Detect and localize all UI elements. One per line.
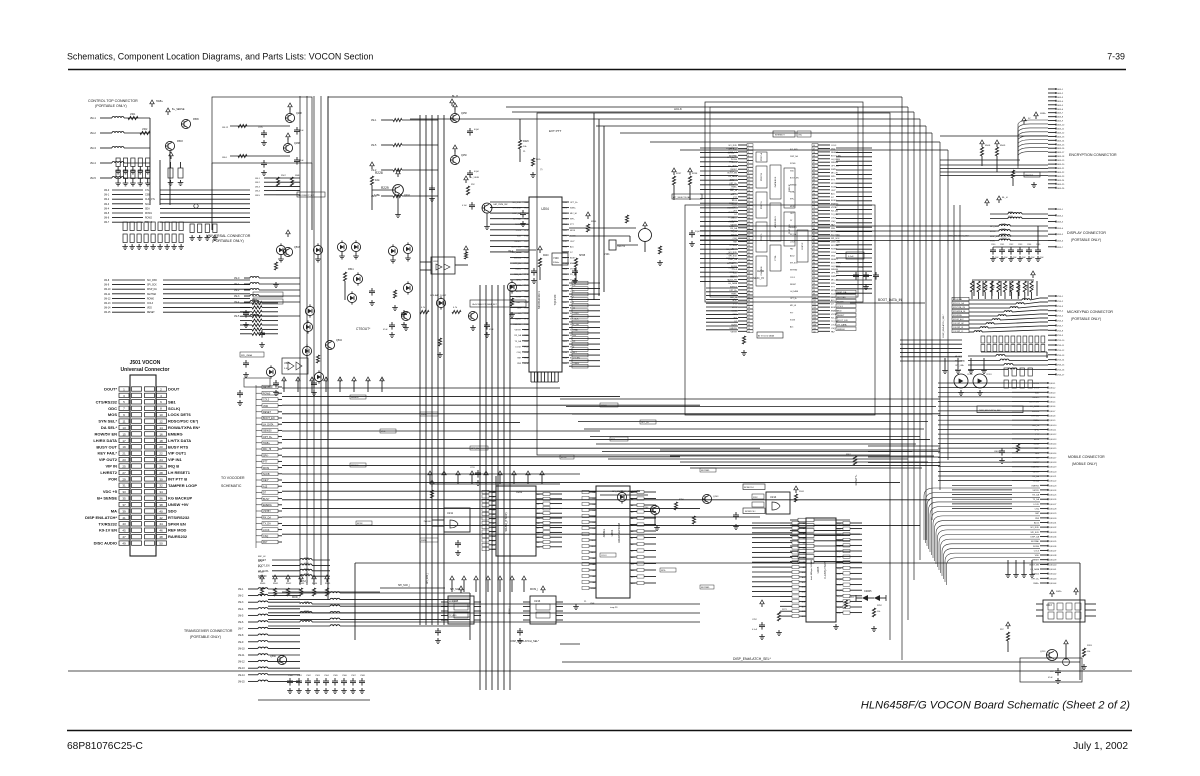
mic keypad lower rows bbox=[955, 355, 1048, 372]
svg-text:DQ14: DQ14 bbox=[837, 601, 842, 603]
svg-text:EMERG: EMERG bbox=[570, 263, 578, 265]
svg-text:J601-25: J601-25 bbox=[1057, 184, 1065, 186]
svg-text:D3: D3 bbox=[593, 510, 595, 512]
svg-text:JM-5: JM-5 bbox=[104, 213, 110, 215]
svg-text:VSTBY: VSTBY bbox=[730, 331, 737, 333]
svg-text:C563: C563 bbox=[315, 675, 321, 677]
svg-text:SPKR EN: SPKR EN bbox=[168, 521, 186, 526]
svg-text:KPD/TOTA_CM: KPD/TOTA_CM bbox=[953, 306, 965, 309]
svg-text:DISP_DA: DISP_DA bbox=[512, 212, 521, 215]
wire bus mid horizontals bbox=[282, 388, 940, 534]
label to vocoder schematic bbox=[221, 476, 245, 488]
svg-text:Intel 4Mbyte SLRAM: Intel 4Mbyte SLRAM bbox=[810, 560, 813, 580]
svg-text:19: 19 bbox=[122, 445, 126, 449]
svg-text:tsop-29: tsop-29 bbox=[610, 606, 618, 609]
net labels under J501 bbox=[258, 556, 266, 579]
svg-text:EMERG: EMERG bbox=[263, 504, 272, 507]
svg-text:A1: A1 bbox=[631, 498, 633, 501]
svg-text:CE1*: CE1* bbox=[263, 479, 269, 482]
svg-text:MOSI: MOSI bbox=[790, 206, 795, 208]
svg-text:J,801-4: J,801-4 bbox=[1049, 397, 1055, 399]
svg-text:J,801-40: J,801-40 bbox=[1049, 564, 1056, 566]
svg-text:JM-9: JM-9 bbox=[104, 285, 110, 287]
svg-text:LH RESET1: LH RESET1 bbox=[168, 470, 191, 475]
svg-text:102: 102 bbox=[813, 304, 816, 306]
svg-text:SCKB: SCKB bbox=[258, 577, 264, 579]
svg-text:PORT B: PORT B bbox=[761, 172, 763, 181]
svg-text:63: 63 bbox=[813, 169, 815, 171]
svg-text:JM-2: JM-2 bbox=[90, 131, 96, 135]
svg-text:AD12: AD12 bbox=[790, 255, 795, 258]
svg-text:C252: C252 bbox=[752, 619, 758, 621]
svg-text:SB9600: SB9600 bbox=[837, 329, 846, 331]
svg-text:DQ10: DQ10 bbox=[837, 579, 842, 581]
svg-text:VSTBY: VSTBY bbox=[1032, 490, 1039, 492]
svg-text:BL_H: BL_H bbox=[1002, 197, 1008, 199]
svg-text:ODC: ODC bbox=[108, 406, 117, 411]
svg-text:0.1uF: 0.1uF bbox=[752, 629, 758, 631]
svg-text:C241: C241 bbox=[1000, 244, 1004, 246]
svg-text:MIC_HI: MIC_HI bbox=[730, 297, 737, 299]
svg-text:TX_DA: TX_DA bbox=[263, 523, 271, 526]
svg-text:28: 28 bbox=[748, 238, 750, 240]
svg-text:MOSI: MOSI bbox=[357, 523, 363, 525]
svg-text:J701-2: J701-2 bbox=[1057, 301, 1064, 303]
svg-text:K9-1V EN: K9-1V EN bbox=[99, 528, 117, 533]
svg-text:A2: A2 bbox=[593, 569, 595, 572]
svg-text:A12: A12 bbox=[802, 581, 805, 584]
svg-text:Y200: Y200 bbox=[553, 257, 559, 260]
footer rule bbox=[67, 730, 1132, 732]
svg-text:BUSY RTS: BUSY RTS bbox=[168, 444, 188, 449]
svg-text:J701-12: J701-12 bbox=[1057, 350, 1065, 352]
svg-text:SDA: SDA bbox=[145, 207, 150, 210]
svg-text:DOUT: DOUT bbox=[168, 387, 180, 392]
svg-text:DISP_DA: DISP_DA bbox=[837, 291, 847, 294]
svg-text:DQ1: DQ1 bbox=[837, 529, 841, 531]
svg-text:VDD: VDD bbox=[1035, 555, 1040, 557]
svg-text:CSQ: CSQ bbox=[831, 221, 836, 223]
svg-text:FLASH(LTSOP): FLASH(LTSOP) bbox=[824, 561, 827, 579]
svg-text:SP5-BAT_DL/4P: SP5-BAT_DL/4P bbox=[430, 294, 447, 297]
svg-text:MIC_HI: MIC_HI bbox=[728, 166, 735, 168]
svg-text:J601-12: J601-12 bbox=[1057, 132, 1065, 134]
svg-text:COL3: COL3 bbox=[601, 555, 607, 557]
ground row mobile bbox=[1005, 560, 1035, 577]
svg-text:D7: D7 bbox=[537, 528, 539, 530]
svg-text:JM-6: JM-6 bbox=[238, 621, 244, 624]
svg-text:J701-11: J701-11 bbox=[1057, 345, 1065, 347]
svg-text:70: 70 bbox=[813, 193, 815, 195]
svg-text:(PORTABLE ONLY): (PORTABLE ONLY) bbox=[1071, 238, 1101, 242]
svg-text:JM-12: JM-12 bbox=[222, 127, 229, 129]
svg-text:SCLK: SCLK bbox=[298, 376, 300, 382]
svg-text:12: 12 bbox=[159, 420, 163, 424]
svg-text:44: 44 bbox=[159, 522, 163, 526]
svg-text:C566: C566 bbox=[342, 675, 348, 677]
svg-text:DQ4: DQ4 bbox=[837, 545, 841, 547]
svg-text:99: 99 bbox=[813, 293, 815, 295]
svg-text:OPT_LMA: OPT_LMA bbox=[955, 364, 964, 367]
encryption horizontals bbox=[940, 159, 1020, 161]
svg-text:94: 94 bbox=[813, 276, 815, 278]
svg-text:VSTBY: VSTBY bbox=[831, 207, 838, 209]
svg-text:10k: 10k bbox=[1087, 651, 1090, 653]
stub column JM mid bbox=[255, 175, 325, 197]
svg-text:MOSI: MOSI bbox=[263, 467, 269, 470]
svg-text:1: 1 bbox=[748, 145, 749, 147]
svg-text:EMERG: EMERG bbox=[727, 208, 734, 210]
svg-text:D2: D2 bbox=[593, 504, 595, 506]
svg-text:A13: A13 bbox=[802, 586, 805, 589]
svg-text:R508: R508 bbox=[985, 145, 991, 147]
transistor Q210 with R228 R229 bbox=[370, 162, 411, 217]
svg-text:J,801-5: J,801-5 bbox=[1049, 402, 1055, 404]
svg-text:TX/RS232: TX/RS232 bbox=[99, 521, 118, 526]
svg-text:42: 42 bbox=[159, 516, 163, 520]
svg-text:JM-5: JM-5 bbox=[234, 315, 240, 318]
svg-text:Q210: Q210 bbox=[404, 194, 411, 197]
capacitor row transceiver bbox=[258, 655, 370, 700]
svg-text:PORT L: PORT L bbox=[761, 232, 763, 241]
svg-text:50: 50 bbox=[748, 314, 750, 316]
svg-text:TO VOCODER: TO VOCODER bbox=[221, 476, 245, 480]
svg-text:101: 101 bbox=[813, 300, 816, 302]
svg-text:47uF: 47uF bbox=[489, 329, 494, 331]
svg-text:DISP EN/LATCH*: DISP EN/LATCH* bbox=[85, 515, 117, 520]
svg-text:COL3: COL3 bbox=[263, 399, 270, 402]
svg-text:61: 61 bbox=[813, 162, 815, 164]
svg-text:10: 10 bbox=[748, 176, 750, 178]
svg-text:MOSI: MOSI bbox=[831, 183, 837, 185]
svg-text:CONTROL TOP CONNECTOR: CONTROL TOP CONNECTOR bbox=[88, 99, 138, 103]
svg-text:SPKB: SPKB bbox=[579, 255, 586, 257]
svg-text:Universal Connector: Universal Connector bbox=[121, 367, 170, 373]
svg-text:21: 21 bbox=[748, 214, 750, 216]
svg-text:R563: R563 bbox=[299, 583, 305, 585]
svg-text:A15: A15 bbox=[570, 245, 574, 248]
svg-text:MIC_HI: MIC_HI bbox=[790, 305, 797, 307]
svg-text:Q560: Q560 bbox=[270, 655, 277, 658]
svg-text:SRAM_(TSOP): SRAM_(TSOP) bbox=[504, 512, 508, 531]
wire bus left verticals bbox=[300, 96, 510, 690]
footer doc number bbox=[67, 741, 143, 752]
svg-text:4.7k: 4.7k bbox=[453, 307, 458, 309]
svg-text:MOD_|: MOD_| bbox=[292, 596, 300, 599]
svg-text:A4: A4 bbox=[803, 542, 805, 545]
svg-text:U202: U202 bbox=[516, 490, 523, 494]
svg-text:U209: U209 bbox=[433, 261, 439, 263]
svg-text:A1: A1 bbox=[493, 495, 495, 498]
svg-text:KPD/MODA_DE: KPD/MODA_DE bbox=[953, 310, 966, 313]
capacitor C801 bbox=[994, 444, 1020, 463]
svg-text:Schematics, Component Location: Schematics, Component Location Diagrams,… bbox=[67, 52, 373, 62]
svg-text:31: 31 bbox=[748, 249, 750, 251]
svg-text:PL: PL bbox=[523, 151, 526, 153]
svg-text:77: 77 bbox=[813, 217, 815, 219]
svg-text:54: 54 bbox=[748, 328, 750, 330]
svg-text:66: 66 bbox=[813, 180, 815, 182]
svg-text:R252: R252 bbox=[877, 605, 883, 607]
svg-text:R262: R262 bbox=[753, 497, 758, 499]
svg-text:A11: A11 bbox=[631, 563, 634, 566]
svg-text:PTT: PTT bbox=[258, 566, 263, 568]
svg-text:KEYPAD: KEYPAD bbox=[701, 469, 710, 472]
svg-text:A10: A10 bbox=[802, 571, 805, 574]
svg-text:SWB+: SWB+ bbox=[831, 276, 838, 278]
svg-text:J601-4: J601-4 bbox=[1057, 101, 1064, 103]
svg-text:A11: A11 bbox=[802, 576, 805, 579]
svg-text:A17: A17 bbox=[802, 605, 805, 608]
svg-text:KEYPAD: KEYPAD bbox=[837, 296, 846, 299]
svg-text:PA0: PA0 bbox=[524, 245, 529, 248]
svg-text:TX_DA: TX_DA bbox=[515, 340, 522, 343]
svg-text:U205: U205 bbox=[816, 566, 820, 573]
svg-text:J,801-43: J,801-43 bbox=[1049, 578, 1056, 580]
transistor Q503 Q504 bbox=[273, 230, 354, 363]
svg-text:RCM2CS#: RCM2CS# bbox=[745, 511, 756, 513]
svg-text:10k: 10k bbox=[375, 178, 380, 182]
label box below U200 bbox=[741, 332, 783, 355]
svg-text:25: 25 bbox=[748, 228, 750, 230]
svg-text:DISP_DA: DISP_DA bbox=[147, 288, 157, 291]
svg-text:JM-2: JM-2 bbox=[238, 595, 244, 598]
svg-text:JM-3: JM-3 bbox=[255, 186, 261, 188]
svg-text:DISP_EN/LATCH_SEL*: DISP_EN/LATCH_SEL* bbox=[942, 314, 945, 337]
svg-text:34: 34 bbox=[748, 259, 750, 261]
svg-text:J601-14: J601-14 bbox=[1057, 140, 1065, 142]
svg-text:J,801-42: J,801-42 bbox=[1049, 574, 1056, 576]
wire bus top staircase bbox=[328, 97, 948, 660]
svg-text:(PORTABLE ONLY): (PORTABLE ONLY) bbox=[190, 635, 221, 639]
svg-text:CTS/RS232: CTS/RS232 bbox=[96, 399, 118, 404]
svg-text:COL3: COL3 bbox=[570, 341, 576, 343]
svg-text:MOSI_|: MOSI_| bbox=[530, 588, 538, 591]
svg-text:SPK_CMBA: SPK_CMBA bbox=[241, 354, 253, 357]
svg-text:A7: A7 bbox=[803, 556, 805, 559]
svg-text:J,801-35: J,801-35 bbox=[1049, 541, 1056, 543]
svg-text:TRANSCEIVER CONNECTOR: TRANSCEIVER CONNECTOR bbox=[184, 629, 233, 633]
svg-text:SWB+: SWB+ bbox=[1040, 113, 1047, 115]
svg-text:J,801-2: J,801-2 bbox=[1049, 388, 1055, 390]
net label boxes right of U200 bbox=[836, 290, 856, 331]
wire bus right verticals bbox=[890, 205, 960, 640]
svg-text:15: 15 bbox=[122, 432, 126, 436]
svg-text:JM-4: JM-4 bbox=[104, 208, 110, 210]
svg-text:R565: R565 bbox=[325, 583, 331, 585]
svg-text:A0: A0 bbox=[593, 557, 595, 560]
svg-text:SCI_RXD: SCI_RXD bbox=[726, 249, 734, 251]
svg-text:36: 36 bbox=[748, 266, 750, 268]
svg-text:33: 33 bbox=[748, 255, 750, 257]
svg-text:A9: A9 bbox=[631, 550, 633, 553]
svg-text:47pF: 47pF bbox=[474, 171, 480, 173]
svg-text:JM-0: JM-0 bbox=[104, 190, 110, 192]
svg-text:D2: D2 bbox=[537, 542, 539, 544]
svg-text:R541: R541 bbox=[348, 268, 354, 271]
svg-text:AD12: AD12 bbox=[730, 243, 735, 246]
svg-text:J,801-30: J,801-30 bbox=[1049, 518, 1056, 520]
svg-text:SCKB: SCKB bbox=[790, 319, 796, 321]
svg-text:J601-3: J601-3 bbox=[1057, 97, 1064, 99]
svg-text:B+_SENSE: B+_SENSE bbox=[172, 108, 185, 111]
svg-text:J701-14: J701-14 bbox=[1057, 360, 1065, 362]
svg-text:MOSI: MOSI bbox=[729, 180, 734, 182]
svg-text:EMERG: EMERG bbox=[1032, 485, 1040, 487]
svg-text:JM-7: JM-7 bbox=[238, 628, 244, 631]
svg-text:J701-7: J701-7 bbox=[1057, 325, 1064, 327]
svg-text:IRQ B: IRQ B bbox=[168, 464, 179, 469]
svg-text:JM-8: JM-8 bbox=[104, 280, 110, 282]
svg-text:LH_DATA: LH_DATA bbox=[1030, 405, 1039, 408]
svg-text:29: 29 bbox=[748, 242, 750, 244]
svg-text:SPI_EN/BOOT_SEL/VPP: SPI_EN/BOOT_SEL/VPP bbox=[612, 491, 637, 493]
svg-text:52: 52 bbox=[748, 321, 750, 323]
svg-text:SWB+: SWB+ bbox=[421, 414, 428, 416]
svg-text:JM-4: JM-4 bbox=[234, 301, 240, 304]
svg-text:23: 23 bbox=[748, 221, 750, 223]
svg-text:PTT: PTT bbox=[570, 224, 575, 226]
wire fan U205 left bbox=[752, 523, 780, 597]
capacitor bank C501-C510 bbox=[115, 158, 150, 186]
svg-text:(?): (?) bbox=[540, 169, 543, 171]
svg-text:A4: A4 bbox=[593, 581, 595, 584]
label mic keypad connector bbox=[1067, 310, 1113, 321]
svg-text:65: 65 bbox=[813, 176, 815, 178]
svg-text:D2: D2 bbox=[537, 504, 539, 506]
svg-text:SCL: SCL bbox=[145, 204, 150, 206]
connector mobile pins bbox=[1040, 382, 1056, 585]
svg-text:TX_DA: TX_DA bbox=[1033, 480, 1040, 483]
svg-text:J,801-21: J,801-21 bbox=[1049, 476, 1056, 478]
svg-text:TAMPER: TAMPER bbox=[1025, 174, 1034, 177]
svg-text:34: 34 bbox=[159, 490, 163, 494]
svg-text:PA7: PA7 bbox=[790, 247, 793, 250]
svg-text:41: 41 bbox=[748, 283, 750, 285]
svg-text:DQ11: DQ11 bbox=[837, 585, 842, 587]
svg-text:PA0: PA0 bbox=[524, 334, 529, 337]
transistor cluster Q207 Q208 bbox=[222, 95, 526, 226]
svg-text:C211: C211 bbox=[470, 467, 476, 469]
svg-text:VIP OUT1: VIP OUT1 bbox=[168, 451, 187, 456]
svg-text:72: 72 bbox=[813, 200, 815, 202]
svg-text:JM-12: JM-12 bbox=[104, 298, 111, 300]
svg-text:J,801-11: J,801-11 bbox=[1049, 430, 1056, 432]
svg-text:Q208: Q208 bbox=[296, 113, 302, 115]
svg-text:A9: A9 bbox=[493, 531, 495, 534]
svg-text:12: 12 bbox=[748, 183, 750, 185]
svg-text:J601-19: J601-19 bbox=[1057, 160, 1065, 162]
svg-text:68P81076C25-C: 68P81076C25-C bbox=[67, 741, 143, 752]
svg-text:JM-14: JM-14 bbox=[104, 308, 111, 310]
svg-text:74: 74 bbox=[813, 207, 815, 209]
svg-text:LH_DATA: LH_DATA bbox=[831, 158, 840, 161]
svg-text:MIC_HI: MIC_HI bbox=[258, 556, 266, 558]
svg-text:MOSI: MOSI bbox=[570, 230, 576, 232]
svg-text:10: 10 bbox=[159, 413, 163, 417]
svg-text:A12: A12 bbox=[631, 569, 634, 572]
svg-text:J,801-17: J,801-17 bbox=[1049, 457, 1056, 459]
svg-text:D7: D7 bbox=[732, 198, 734, 200]
label boxes right of U214 bbox=[790, 518, 850, 563]
svg-text:J501-6: J501-6 bbox=[1057, 241, 1064, 243]
svg-text:32KX8 EEPROM: 32KX8 EEPROM bbox=[617, 523, 621, 543]
svg-text:A5: A5 bbox=[803, 547, 805, 550]
svg-text:A3: A3 bbox=[493, 504, 495, 507]
svg-text:JM-15: JM-15 bbox=[104, 312, 111, 314]
svg-text:17: 17 bbox=[748, 200, 750, 202]
svg-text:49: 49 bbox=[122, 542, 126, 546]
svg-text:SCI_RXD: SCI_RXD bbox=[1030, 527, 1039, 529]
svg-text:SWB+: SWB+ bbox=[1056, 591, 1063, 593]
svg-text:R509: R509 bbox=[1000, 145, 1006, 147]
net label disp en latch sel display bbox=[948, 235, 969, 238]
svg-text:ROW/5V EN: ROW/5V EN bbox=[95, 431, 118, 436]
svg-text:SPK-: SPK- bbox=[258, 561, 263, 563]
svg-text:HLN6458F/G VOCON Board Schemat: HLN6458F/G VOCON Board Schematic (Sheet … bbox=[861, 700, 1131, 712]
svg-text:SPK-: SPK- bbox=[570, 219, 575, 221]
svg-text:J,801-27: J,801-27 bbox=[1049, 504, 1056, 506]
svg-text:67: 67 bbox=[813, 183, 815, 185]
svg-text:PORT H: PORT H bbox=[761, 200, 763, 209]
ground row mic keypad bbox=[942, 358, 987, 373]
svg-text:SB9600: SB9600 bbox=[351, 465, 359, 467]
svg-text:SPKA: SPKA bbox=[325, 376, 328, 382]
svg-text:J,801-6: J,801-6 bbox=[1049, 406, 1055, 408]
svg-text:47uF: 47uF bbox=[299, 130, 304, 132]
svg-text:A11: A11 bbox=[492, 539, 495, 542]
svg-text:OPT_B+: OPT_B+ bbox=[1031, 578, 1040, 580]
svg-text:35: 35 bbox=[748, 262, 750, 264]
svg-text:J601-21: J601-21 bbox=[1057, 168, 1065, 170]
svg-text:COL2/KP_LS: COL2/KP_LS bbox=[953, 327, 964, 329]
svg-text:CTSOUT*: CTSOUT* bbox=[356, 327, 371, 331]
svg-text:J701-4: J701-4 bbox=[1057, 311, 1064, 313]
svg-text:SCI_RXD: SCI_RXD bbox=[790, 149, 798, 151]
svg-text:SPI_SCK: SPI_SCK bbox=[831, 238, 840, 240]
svg-text:47: 47 bbox=[748, 304, 750, 306]
svg-text:118k: 118k bbox=[374, 193, 380, 197]
svg-text:JM-1: JM-1 bbox=[104, 195, 110, 197]
svg-text:A7: A7 bbox=[631, 537, 633, 540]
net label BOOT_DATA_IN bbox=[850, 298, 925, 303]
svg-text:SCLK): SCLK) bbox=[168, 406, 181, 411]
svg-text:JM-1: JM-1 bbox=[371, 119, 377, 122]
svg-text:MOSI: MOSI bbox=[312, 377, 314, 382]
svg-text:SCKB: SCKB bbox=[263, 473, 270, 476]
svg-text:BUSY: BUSY bbox=[570, 258, 576, 260]
resistor pair R237 R243 bbox=[672, 168, 702, 200]
svg-text:RX_DA: RX_DA bbox=[1032, 494, 1039, 497]
svg-text:R562: R562 bbox=[286, 583, 292, 585]
svg-text:JM-6: JM-6 bbox=[222, 157, 228, 159]
IC U201 EEPROM bbox=[573, 486, 656, 609]
svg-text:OPT_B+: OPT_B+ bbox=[727, 157, 734, 159]
svg-text:SCKB: SCKB bbox=[729, 185, 735, 187]
svg-text:MOSI: MOSI bbox=[732, 200, 738, 202]
svg-text:5: 5 bbox=[123, 400, 125, 404]
resistor column transceiver pullups bbox=[260, 575, 331, 597]
svg-text:J601-26: J601-26 bbox=[1057, 188, 1065, 190]
svg-text:DQ12: DQ12 bbox=[837, 590, 842, 592]
svg-text:56: 56 bbox=[813, 145, 815, 147]
svg-text:SB9600: SB9600 bbox=[831, 162, 839, 164]
audio output block U213 Q213 bbox=[1000, 588, 1096, 683]
svg-text:SLIC_IV: SLIC_IV bbox=[753, 276, 764, 280]
svg-text:RX_DA: RX_DA bbox=[514, 334, 521, 337]
svg-text:3: 3 bbox=[123, 394, 125, 398]
svg-text:D0: D0 bbox=[537, 532, 539, 534]
